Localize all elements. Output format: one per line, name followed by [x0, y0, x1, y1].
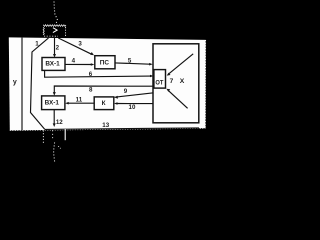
wire 9 — [114, 88, 154, 99]
svg-text:1: 1 — [35, 41, 39, 48]
node dashed exit bottom (external dotted lead) — [43, 129, 65, 162]
figure background plate — [9, 37, 206, 130]
svg-text:ПС: ПС — [100, 60, 110, 67]
wire 1 — [31, 38, 49, 129]
svg-text:ВХ-1: ВХ-1 — [45, 100, 60, 107]
svg-text:у: у — [13, 79, 17, 86]
block K (switch) — [94, 97, 114, 110]
svg-text:5: 5 — [128, 57, 132, 64]
svg-text:4: 4 — [72, 57, 76, 64]
wire left bus border — [21, 38, 23, 131]
wire 5 — [115, 57, 153, 65]
svg-text:13: 13 — [102, 122, 109, 129]
svg-text:ОТ: ОТ — [155, 80, 163, 87]
svg-text:3: 3 — [78, 40, 82, 47]
svg-text:2: 2 — [56, 44, 60, 51]
node dashed entry top (external dotted lead) — [43, 2, 66, 37]
wire 2 — [53, 38, 60, 58]
svg-text:12: 12 — [56, 119, 63, 126]
block OT (optical transceiver) — [154, 70, 166, 89]
svg-text:К: К — [102, 100, 106, 107]
wire 11 — [65, 97, 94, 105]
wire beam upper — [167, 54, 194, 76]
svg-text:ВХ-1: ВХ-1 — [45, 60, 60, 67]
plate ragged right edge — [204, 40, 206, 128]
svg-text:8: 8 — [89, 86, 93, 93]
block BX-1 (lower receiver) — [42, 96, 65, 110]
wire 6 — [45, 70, 154, 78]
block PS — [95, 56, 115, 69]
svg-text:10: 10 — [129, 104, 136, 111]
svg-text:11: 11 — [76, 97, 83, 104]
block BX-1 (top receiver) — [42, 58, 65, 71]
svg-text:Х: Х — [180, 78, 185, 85]
svg-text:9: 9 — [124, 88, 128, 95]
wire 3 — [58, 38, 94, 55]
wire beam lower — [166, 89, 187, 109]
wire 13 — [45, 122, 199, 129]
big box X (target cabin) — [153, 44, 199, 123]
svg-text:7: 7 — [170, 78, 174, 85]
wire 4 — [65, 57, 94, 66]
wire 10 — [114, 102, 153, 111]
plate ragged bottom edge — [10, 128, 206, 130]
wire 12 — [53, 110, 64, 127]
wire 8 — [53, 86, 154, 96]
svg-text:6: 6 — [89, 71, 93, 78]
